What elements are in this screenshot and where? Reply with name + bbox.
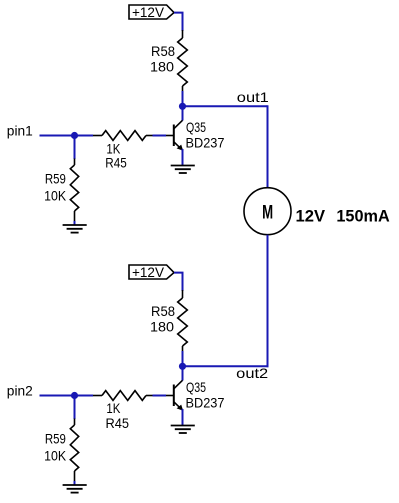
svg-text:150mA: 150mA: [336, 206, 389, 225]
svg-text:pin1: pin1: [7, 123, 33, 139]
motor M: [244, 188, 291, 235]
wire: pin1 to R45 (top): [40, 135, 94, 137]
ground under R59 (bottom): [63, 485, 87, 493]
resistor R45 (top): [93, 131, 153, 141]
svg-text:12V: 12V: [296, 206, 326, 225]
svg-text:Q35: Q35: [186, 119, 206, 135]
wire: pin2 to R45 (bottom): [40, 395, 94, 397]
wire: Q35 emitter to ground (top): [182, 149, 184, 166]
power flag +12V (top): [129, 4, 174, 20]
transistor Q35 (top): [166, 120, 183, 151]
wire: R45 to Q35 base (bottom): [153, 395, 167, 397]
resistor R59 (top): [70, 159, 78, 222]
ground under R59 (top): [63, 225, 87, 233]
junction node out2: [179, 363, 186, 370]
wire: junction down to R59 (top): [74, 136, 76, 160]
ground under Q35 (bottom): [171, 426, 195, 434]
wire: Q35 emitter to ground (bottom): [182, 409, 184, 426]
svg-text:BD237: BD237: [186, 394, 225, 410]
svg-text:10K: 10K: [44, 187, 67, 203]
svg-text:R59: R59: [45, 170, 66, 186]
svg-text:Q35: Q35: [186, 379, 206, 395]
wire: R58 bottom to Q35 collector (bottom): [182, 351, 184, 381]
svg-text:out2: out2: [236, 365, 268, 381]
wire: R59 to ground (bottom): [74, 481, 76, 485]
wire: R45 to Q35 base (top): [153, 135, 167, 137]
wire: out2 horizontal to motor column: [183, 365, 269, 367]
svg-text:180: 180: [150, 59, 174, 75]
resistor R58 (top): [178, 30, 188, 92]
wire: down to motor top: [267, 105, 269, 188]
value 12V 150mA: [296, 206, 390, 225]
svg-text:R45: R45: [106, 415, 130, 431]
svg-text:R58: R58: [151, 43, 175, 59]
wire: out1 horizontal to motor column: [183, 105, 268, 107]
svg-text:10K: 10K: [44, 447, 67, 463]
power flag +12V (bottom): [129, 264, 174, 280]
svg-text:180: 180: [150, 319, 174, 335]
wire: motor bottom to out2: [267, 235, 269, 368]
resistor R59 (bottom): [70, 419, 78, 482]
wire: junction down to R59 (bottom): [74, 396, 76, 420]
svg-text:M: M: [262, 202, 273, 223]
svg-text:R45: R45: [105, 154, 127, 170]
resistor R58 (bottom): [178, 290, 188, 352]
resistor R45 (bottom): [93, 391, 153, 401]
transistor Q35 (bottom): [166, 380, 183, 411]
svg-text:BD237: BD237: [186, 134, 225, 150]
svg-text:R59: R59: [45, 430, 66, 446]
svg-text:out1: out1: [237, 89, 269, 105]
svg-text:+12V: +12V: [132, 4, 165, 20]
svg-text:R58: R58: [151, 303, 175, 319]
junction node out1: [179, 103, 186, 110]
wire: +12V flag to R58 top (bottom): [174, 273, 183, 291]
wire: R58 bottom to Q35 collector (top): [182, 91, 184, 121]
junction at pin1/R59 (top): [71, 132, 78, 139]
svg-text:+12V: +12V: [132, 264, 165, 280]
svg-text:pin2: pin2: [7, 383, 33, 399]
junction at pin2/R59 (bottom): [71, 392, 78, 399]
ground under Q35 (top): [171, 166, 195, 174]
wire: R59 to ground (top): [74, 221, 76, 225]
wire: +12V flag to R58 top (top): [174, 13, 183, 31]
svg-text:1K: 1K: [106, 400, 121, 416]
